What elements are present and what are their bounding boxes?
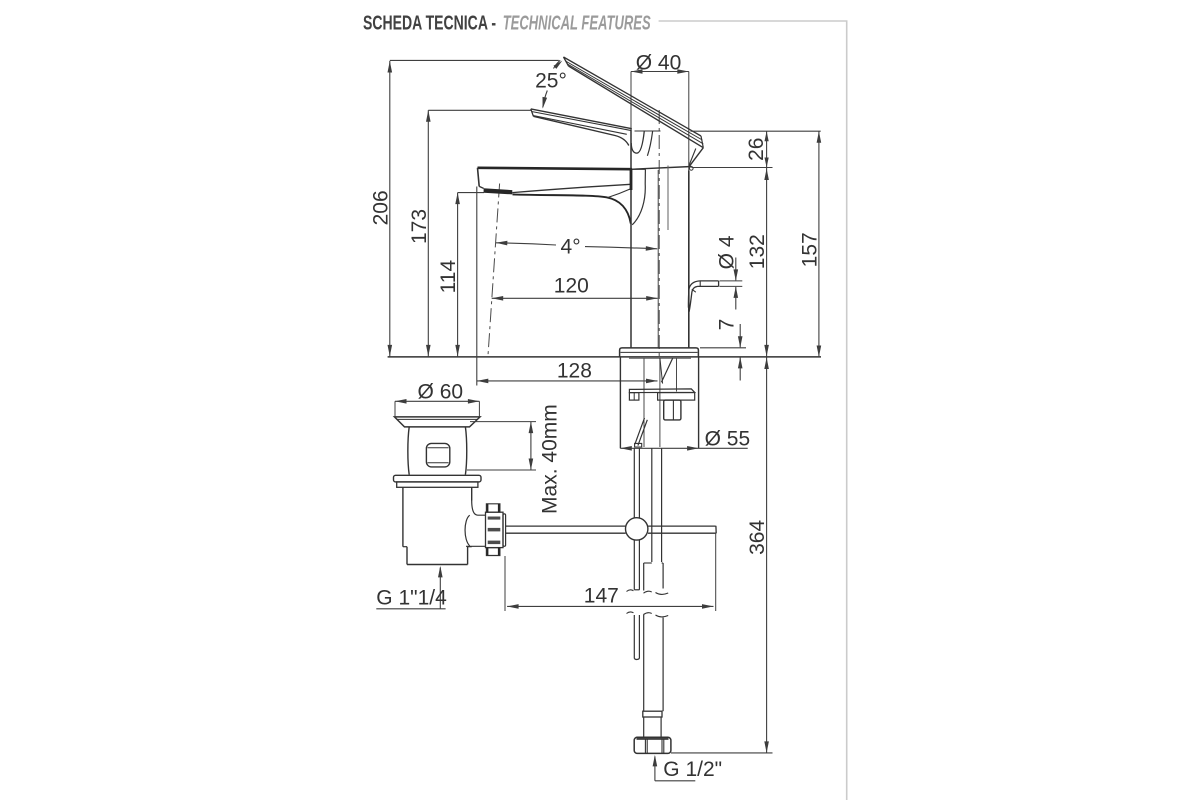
svg-text:G 1"1/4: G 1"1/4: [376, 587, 447, 610]
dimension Max. 40mm: [467, 404, 562, 514]
body cap: [631, 148, 704, 171]
drain flange plates: [394, 475, 482, 482]
extension line flange top: [700, 347, 746, 349]
dimension 120: [492, 275, 658, 301]
svg-text:132: 132: [746, 234, 769, 269]
dimension 4 degrees: [496, 236, 658, 259]
fixing nut: [664, 400, 681, 420]
hose lower run: [643, 615, 645, 712]
spout front (left) edge: [478, 168, 480, 187]
faucet vertical centerline (dash-dot): [658, 110, 660, 357]
dimension 132: [746, 168, 769, 357]
svg-text:147: 147: [584, 585, 619, 608]
body internal edge: [657, 170, 659, 348]
hose collar: [643, 711, 662, 717]
svg-text:Ø 60: Ø 60: [418, 380, 464, 403]
svg-text:G 1/2": G 1/2": [663, 758, 722, 781]
svg-text:7: 7: [716, 319, 739, 331]
horseshoe washer: [629, 389, 694, 393]
pivot ball: [626, 518, 648, 540]
drain tailpiece: [406, 547, 408, 565]
supply pipe: [651, 448, 653, 562]
svg-text:26: 26: [745, 138, 768, 161]
mounting box walls: [619, 357, 621, 448]
drain body side arc: [465, 515, 470, 546]
extension line nut bottom: [671, 752, 773, 754]
horizontal linkage rod: [506, 525, 626, 527]
G 1/2 connection nut: [634, 737, 671, 753]
threaded shank lines: [643, 358, 645, 447]
rod lower end: [633, 615, 635, 659]
supply elbow pipe: [688, 281, 718, 312]
svg-text:206: 206: [370, 190, 393, 225]
dimension diameter 60: [395, 380, 479, 416]
aerator slab: [484, 188, 513, 194]
dimension 206: [370, 60, 559, 356]
dimension 128: [477, 187, 658, 386]
svg-text:Max. 40mm: Max. 40mm: [539, 404, 562, 514]
dimension 147: [505, 533, 716, 611]
svg-text:114: 114: [437, 260, 460, 294]
dimension 114: [437, 193, 484, 357]
knurled rod nut: [486, 512, 504, 547]
body column right edge: [688, 171, 690, 348]
dimension diameter 55: [620, 427, 750, 450]
svg-text:25°: 25°: [535, 70, 567, 93]
svg-text:120: 120: [554, 275, 589, 298]
extension line bottom of body: [692, 167, 773, 169]
page frame line: [659, 21, 847, 800]
svg-text:Ø 55: Ø 55: [705, 427, 751, 450]
dimension 364: [746, 358, 769, 753]
drain lower body: [402, 487, 404, 546]
pop-up rod diagonal in box: [635, 418, 645, 444]
label G 1"1/4: [376, 566, 447, 610]
dimension 173: [408, 110, 531, 356]
spout bottom swoosh outer: [513, 194, 631, 223]
extension line top of body: [691, 130, 821, 132]
lever handle raised 25deg: [564, 57, 704, 148]
dimension 157: [799, 131, 822, 357]
label G 1/2: [653, 755, 723, 781]
dimension 26: [745, 131, 769, 167]
rod continues below ball: [633, 540, 635, 590]
rod boss: [472, 501, 486, 516]
drain spool body: [408, 427, 409, 475]
svg-text:Ø 40: Ø 40: [636, 51, 682, 74]
countertop reference line: [388, 356, 821, 358]
drain window: [426, 443, 449, 467]
dimension diameter 40: [631, 51, 689, 170]
svg-text:157: 157: [799, 232, 822, 267]
dimension 25 degrees handle angle: [535, 60, 567, 108]
spout axis slant centerline: [488, 184, 500, 357]
base flange: [620, 348, 699, 357]
svg-text:4°: 4°: [561, 236, 581, 259]
handle neck / pivot: [631, 131, 644, 153]
break marks lower: [627, 612, 634, 614]
svg-text:TECHNICAL FEATURES: TECHNICAL FEATURES: [503, 13, 651, 35]
spout channel underside: [512, 184, 630, 192]
break marks upper: [627, 590, 634, 592]
spout swoosh inner: [632, 169, 645, 225]
spout swoosh connector: [608, 189, 631, 198]
svg-text:Ø 4: Ø 4: [716, 235, 739, 269]
svg-text:364: 364: [746, 520, 769, 555]
body column left edge: [630, 130, 632, 348]
svg-text:173: 173: [408, 209, 431, 244]
drain top flange: [395, 417, 481, 427]
spout top edge: [478, 168, 633, 169]
dimension diameter 4: [716, 235, 743, 309]
svg-text:128: 128: [557, 360, 592, 383]
lever handle closed: [531, 109, 632, 146]
dimension 7: [716, 319, 743, 381]
tie rod diagonals upper: [661, 358, 672, 382]
svg-text:SCHEDA TECNICA -: SCHEDA TECNICA -: [363, 13, 496, 35]
hose fitting: [643, 563, 645, 591]
pop-up rod vertical: [633, 448, 635, 518]
